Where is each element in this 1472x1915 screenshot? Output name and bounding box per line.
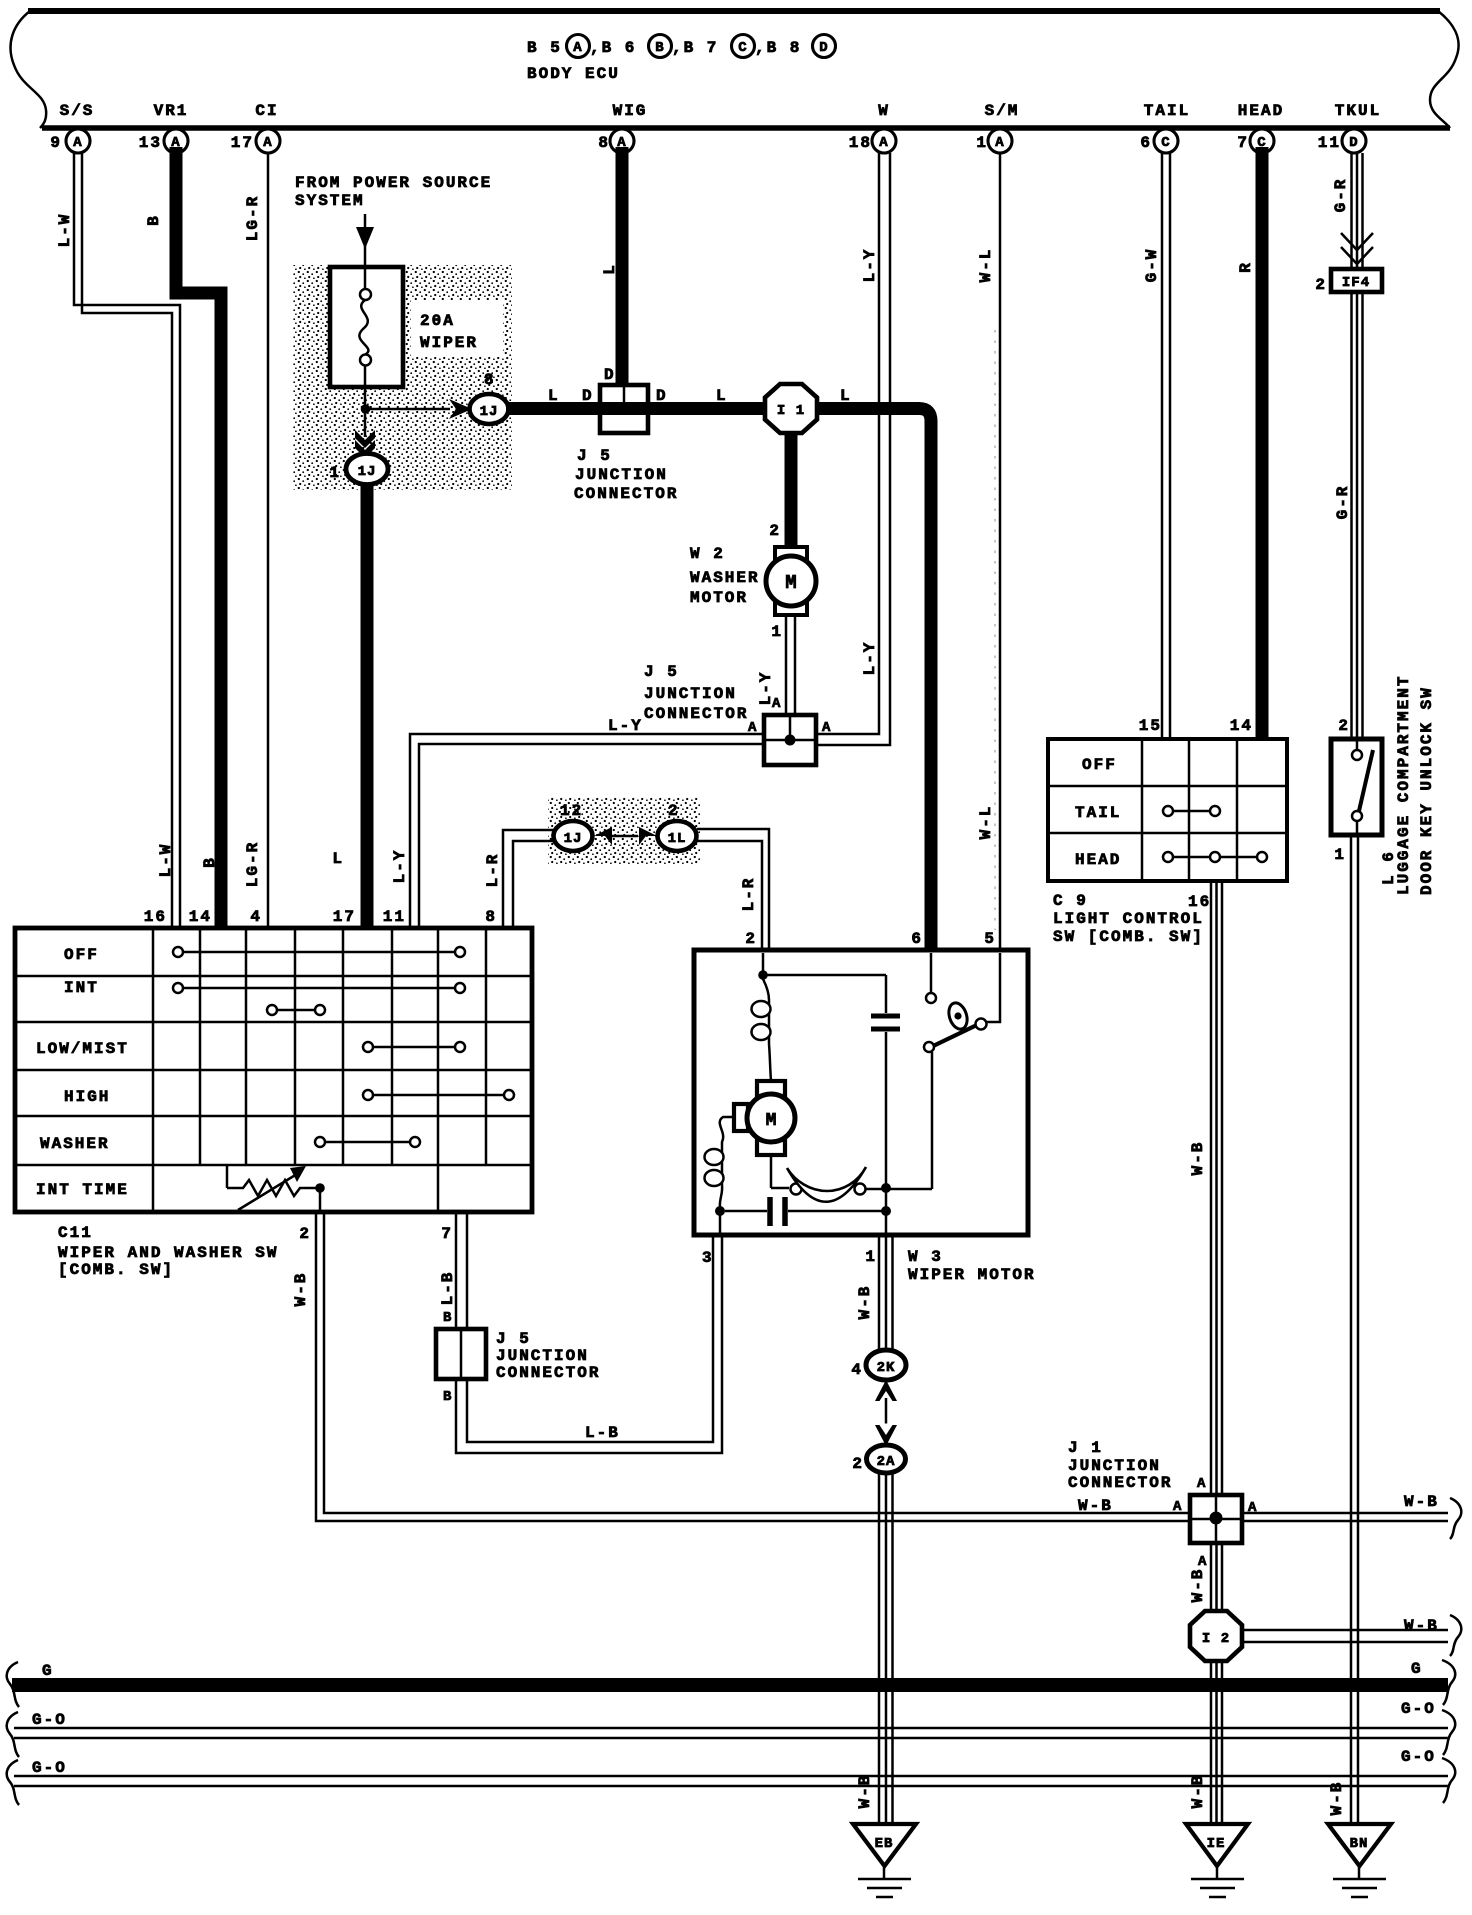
connector oval 2A (pin 2) — [852, 1445, 905, 1473]
connector oval 1J (pin 12) — [554, 802, 593, 851]
svg-text:CONNECTOR: CONNECTOR — [1068, 1474, 1172, 1492]
svg-text:7: 7 — [441, 1225, 453, 1243]
svg-text:LG-R: LG-R — [244, 841, 262, 887]
svg-text:W-B: W-B — [856, 1774, 874, 1809]
svg-text:WIG: WIG — [613, 102, 648, 120]
svg-text:R: R — [1237, 261, 1255, 273]
chevron arrows into IF4 — [1341, 233, 1373, 264]
pin W 18A — [849, 102, 896, 153]
svg-text:I 2: I 2 — [1202, 1631, 1230, 1647]
svg-text:G: G — [42, 1662, 54, 1680]
W3 internal: park switch — [924, 953, 1000, 1052]
svg-text:11: 11 — [383, 908, 406, 926]
svg-text:A: A — [1197, 1476, 1206, 1492]
svg-text:B: B — [145, 214, 163, 226]
wire G-W from TAIL down to C9 pin 15 — [1143, 153, 1170, 739]
svg-text:14: 14 — [189, 908, 212, 926]
svg-text:[COMB. SW]: [COMB. SW] — [58, 1261, 174, 1279]
branch wire to connector 1J pin 8 — [369, 399, 472, 419]
C11 OFF row contacts — [173, 947, 465, 957]
svg-text:17: 17 — [231, 134, 254, 152]
wire W-B from I2 down to IE ground — [1189, 1661, 1222, 1824]
body break braces for W-B lines at right — [1450, 1498, 1461, 1656]
svg-text:L-Y: L-Y — [391, 849, 409, 884]
svg-text:JUNCTION: JUNCTION — [1068, 1457, 1161, 1475]
svg-text:A: A — [1173, 1499, 1182, 1515]
svg-text:1J: 1J — [564, 831, 583, 847]
wire W-B from 2A down to EB ground — [856, 1473, 893, 1824]
svg-text:BN: BN — [1350, 1836, 1369, 1852]
svg-text:W 2: W 2 — [690, 545, 725, 563]
octagon connector I 2 — [1190, 1611, 1242, 1661]
svg-text:2: 2 — [1338, 717, 1350, 735]
wire L-Y from J5 left across to C11 pin 11 — [391, 717, 764, 928]
thick wire L from I1 right to wiper motor pin 6 — [817, 387, 931, 950]
wire B (thick) from VR1 to C11 pin 14 — [145, 147, 221, 928]
double chevron arrow down to connector 1J — [355, 413, 375, 458]
svg-text:D: D — [582, 387, 594, 405]
svg-text:11: 11 — [1318, 134, 1341, 152]
washer motor W2 — [690, 545, 816, 615]
svg-text:W-B: W-B — [1404, 1617, 1439, 1635]
svg-text:16: 16 — [1188, 893, 1211, 911]
svg-text:WIPER: WIPER — [420, 334, 478, 352]
svg-text:G-R: G-R — [1334, 485, 1352, 520]
svg-text:HIGH: HIGH — [64, 1088, 110, 1106]
svg-text:A: A — [879, 135, 888, 151]
svg-text:2: 2 — [668, 802, 680, 820]
svg-text:L-R: L-R — [484, 853, 502, 888]
svg-text:18: 18 — [849, 134, 872, 152]
ground rail G-O (lower) — [7, 1748, 1455, 1805]
C11 caption — [58, 1224, 278, 1279]
svg-text:SYSTEM: SYSTEM — [295, 192, 365, 210]
junction connector J1 box (A pins) — [1068, 1439, 1257, 1570]
C11 WASHER row contacts — [315, 1137, 420, 1147]
C11 pin numbers top — [144, 908, 497, 926]
svg-text:JUNCTION: JUNCTION — [496, 1347, 589, 1365]
feed arrow into fuse — [356, 214, 374, 266]
svg-text:A: A — [1198, 1554, 1207, 1570]
svg-text:W-L: W-L — [977, 805, 995, 840]
connector oval 1J (pin 8) — [470, 371, 509, 424]
svg-text:W 3: W 3 — [908, 1248, 943, 1266]
junction connector J5 box (bottom, A pins) — [644, 663, 831, 765]
svg-text:VR1: VR1 — [154, 102, 189, 120]
svg-text:B: B — [201, 856, 219, 868]
svg-text:12: 12 — [560, 802, 583, 820]
svg-text:L-Y: L-Y — [861, 641, 879, 676]
svg-text:14: 14 — [1230, 717, 1253, 735]
pin S/M 1A — [976, 102, 1019, 153]
svg-text:,B 8: ,B 8 — [755, 39, 801, 57]
svg-text:L: L — [548, 387, 560, 405]
luggage compartment door key unlock switch L6 — [1331, 739, 1382, 864]
light control switch C9 table — [1048, 739, 1287, 881]
svg-text:IF4: IF4 — [1342, 275, 1370, 291]
svg-text:D: D — [1349, 135, 1358, 151]
C11 INT row contacts — [173, 983, 465, 1015]
pin WIG 8A — [598, 102, 647, 153]
svg-text:L-B: L-B — [439, 1271, 457, 1306]
ground rail G-O (upper) — [7, 1700, 1455, 1757]
svg-text:C 9: C 9 — [1053, 892, 1088, 910]
svg-text:CI: CI — [255, 102, 278, 120]
wire W-B from W3 pin 1 down to 2K — [856, 1235, 893, 1352]
svg-text:WIPER MOTOR: WIPER MOTOR — [908, 1266, 1036, 1284]
C11 INT TIME variable resistor — [227, 1165, 325, 1212]
wire G-R from IF4 down to L6 pin 2 — [1334, 292, 1363, 739]
svg-text:M: M — [785, 572, 796, 594]
svg-text:3: 3 — [702, 1249, 714, 1267]
pin S/S 9A — [50, 102, 94, 153]
wire L-R from 1L to wiper motor pin 2 — [697, 829, 769, 950]
svg-text:JUNCTION: JUNCTION — [644, 685, 737, 703]
svg-text:4: 4 — [250, 908, 262, 926]
svg-text:I 1: I 1 — [777, 403, 805, 419]
svg-text:W-B: W-B — [1078, 1497, 1113, 1515]
svg-text:2: 2 — [745, 930, 757, 948]
svg-text:LIGHT CONTROL: LIGHT CONTROL — [1053, 910, 1204, 928]
BODY ECU title: B 5 A, B 6 B, B 7 C, B 8 D — [527, 35, 836, 84]
svg-text:INT: INT — [64, 979, 99, 997]
svg-text:EB: EB — [875, 1836, 894, 1852]
pin TKUL 11D — [1318, 102, 1381, 153]
wire LG-R from CI to C11 pin 4 — [244, 153, 268, 928]
svg-text:B: B — [443, 1389, 452, 1405]
W3 internal: left coil to pin 3 — [705, 1117, 735, 1233]
body ECU box outline — [11, 11, 1459, 128]
svg-text:13: 13 — [139, 134, 162, 152]
pin CI 17A — [231, 102, 280, 153]
wiper motor W3 box — [694, 930, 1036, 1284]
arrows between 1J and 1L — [594, 827, 657, 845]
wire W-B from C11 pin 2 across to J1 — [292, 1212, 1448, 1521]
svg-text:1: 1 — [976, 134, 988, 152]
wire G-R from TKUL down to IF4 — [1332, 153, 1363, 269]
svg-text:OFF: OFF — [64, 946, 99, 964]
fuse 20A WIPER — [330, 267, 478, 387]
svg-text:TAIL: TAIL — [1144, 102, 1190, 120]
C11 HIGH row contacts — [363, 1090, 514, 1100]
svg-text:IE: IE — [1207, 1836, 1226, 1852]
svg-text:1L: 1L — [668, 831, 687, 847]
svg-text:WASHER: WASHER — [40, 1135, 110, 1153]
svg-text:8: 8 — [484, 371, 496, 389]
arrows between 2K and 2A — [875, 1380, 897, 1446]
svg-text:D: D — [819, 40, 828, 56]
svg-text:L-Y: L-Y — [608, 717, 643, 735]
svg-text:W-B: W-B — [1189, 1141, 1207, 1176]
svg-text:1: 1 — [865, 1248, 877, 1266]
svg-text:W-B: W-B — [1189, 1774, 1207, 1809]
svg-text:C11: C11 — [58, 1224, 93, 1242]
svg-text:WIPER AND WASHER SW: WIPER AND WASHER SW — [58, 1244, 278, 1262]
svg-text:TAIL: TAIL — [1075, 804, 1121, 822]
svg-text:G-O: G-O — [32, 1711, 67, 1729]
svg-text:J 5: J 5 — [644, 663, 679, 681]
svg-text:2K: 2K — [877, 1360, 896, 1376]
svg-text:WASHER: WASHER — [690, 569, 760, 587]
svg-text:1: 1 — [771, 623, 783, 641]
svg-text:A: A — [995, 135, 1004, 151]
svg-text:LOW/MIST: LOW/MIST — [36, 1040, 129, 1058]
svg-text:1: 1 — [1334, 846, 1346, 864]
svg-text:9: 9 — [50, 134, 62, 152]
svg-text:,B 7: ,B 7 — [672, 39, 718, 57]
svg-text:L: L — [332, 850, 344, 868]
svg-text:15: 15 — [1139, 717, 1162, 735]
svg-text:2A: 2A — [877, 1454, 896, 1470]
svg-text:CONNECTOR: CONNECTOR — [496, 1364, 600, 1382]
wire R (thick) from HEAD down to C9 pin 14 — [1237, 147, 1262, 739]
wire L-Y from W pin 18 down to J5 junction — [816, 153, 890, 745]
wire W-B from L6 pin 1 down to BN ground — [1328, 835, 1358, 1824]
svg-text:W-L: W-L — [977, 248, 995, 283]
svg-text:HEAD: HEAD — [1238, 102, 1284, 120]
ground EB — [853, 1824, 916, 1897]
svg-text:W: W — [878, 102, 890, 120]
svg-text:1: 1 — [329, 464, 341, 482]
svg-text:6: 6 — [1140, 134, 1152, 152]
svg-text:MOTOR: MOTOR — [690, 589, 748, 607]
svg-text:CONNECTOR: CONNECTOR — [644, 705, 748, 723]
svg-text:DOOR KEY UNLOCK SW: DOOR KEY UNLOCK SW — [1418, 686, 1436, 895]
svg-text:J 5: J 5 — [577, 447, 612, 465]
svg-text:L-Y: L-Y — [861, 248, 879, 283]
svg-text:2: 2 — [852, 1455, 864, 1473]
octagon connector I 1 — [648, 384, 817, 433]
svg-text:TKUL: TKUL — [1335, 102, 1381, 120]
svg-text:G: G — [1411, 1660, 1423, 1678]
svg-text:L: L — [601, 263, 619, 275]
svg-text:FROM POWER SOURCE: FROM POWER SOURCE — [295, 174, 492, 192]
svg-text:L-W: L-W — [157, 843, 175, 878]
svg-text:C: C — [1161, 135, 1170, 151]
svg-text:2: 2 — [299, 1225, 311, 1243]
ground rail G — [7, 1660, 1455, 1707]
W3 internal: commutator crescent and brushes — [771, 1052, 932, 1202]
connector oval 2K (pin 4) — [851, 1350, 906, 1380]
svg-text:W-B: W-B — [292, 1272, 310, 1307]
wire L-Y from washer motor pin 1 to J5 junction — [757, 615, 795, 716]
svg-text:,B 6: ,B 6 — [590, 39, 636, 57]
svg-text:JUNCTION: JUNCTION — [575, 466, 668, 484]
svg-text:M: M — [766, 1111, 777, 1131]
svg-text:SW [COMB. SW]: SW [COMB. SW] — [1053, 928, 1204, 946]
svg-text:W-B: W-B — [1189, 1568, 1207, 1603]
C11 LOW/MIST row contacts — [363, 1042, 465, 1052]
W3 internal: pin2 node and field coil — [752, 953, 887, 1081]
svg-text:8: 8 — [598, 134, 610, 152]
ground IE — [1186, 1824, 1248, 1897]
svg-text:J 5: J 5 — [496, 1330, 531, 1348]
stipple patch around fuse 20A WIPER — [293, 265, 512, 490]
svg-text:W-B: W-B — [1404, 1493, 1439, 1511]
svg-text:B: B — [443, 1310, 452, 1326]
svg-text:A: A — [1248, 1500, 1257, 1516]
stipple patch around junction ovals 1J/1L — [548, 797, 700, 865]
C9 pin numbers — [1139, 717, 1253, 911]
wire W-L from S/M down to wiper motor pin 5 — [977, 153, 1000, 950]
svg-text:A: A — [573, 40, 582, 56]
svg-text:16: 16 — [144, 908, 167, 926]
svg-text:A: A — [822, 720, 831, 736]
svg-text:2: 2 — [1315, 276, 1327, 294]
junction connector J5 box (top, D pins) — [574, 385, 678, 503]
svg-text:OFF: OFF — [1082, 756, 1117, 774]
W3 internal: top capacitor branch — [871, 975, 900, 1211]
C9 TAIL row contacts — [1163, 806, 1220, 816]
thick wire L from 1J down to C11 pin 17 — [332, 483, 367, 928]
svg-text:C: C — [738, 40, 747, 56]
svg-text:20A: 20A — [420, 312, 455, 330]
FROM POWER SOURCE SYSTEM label — [295, 174, 492, 210]
svg-text:6: 6 — [911, 930, 923, 948]
svg-text:L-R: L-R — [740, 877, 758, 912]
pin TAIL 6C — [1140, 102, 1190, 153]
svg-text:A: A — [73, 135, 82, 151]
svg-text:HEAD: HEAD — [1075, 851, 1121, 869]
svg-text:G-O: G-O — [1401, 1700, 1436, 1718]
pin HEAD 7C — [1237, 102, 1284, 153]
wire from fuse to junction node — [364, 387, 367, 409]
svg-text:7: 7 — [1237, 134, 1249, 152]
svg-text:G-O: G-O — [1401, 1748, 1436, 1766]
wire L-W from S/S to C11 pin 16 — [56, 153, 180, 928]
svg-text:17: 17 — [333, 908, 356, 926]
C9 HEAD row contacts — [1163, 852, 1267, 862]
wire W-B from C9 pin 16 down through J1 to I2 — [1189, 881, 1222, 1612]
wire L-B from C11 pin 7 to J5 junction — [439, 1212, 467, 1330]
wire W-B from I2 right to body break — [1242, 1617, 1448, 1642]
svg-text:INT TIME: INT TIME — [36, 1181, 129, 1199]
svg-text:S/M: S/M — [985, 102, 1020, 120]
svg-text:W-B: W-B — [856, 1285, 874, 1320]
wire L (thick) from WIG down to J5 — [601, 147, 622, 388]
connector oval 1L (pin 2) — [658, 802, 697, 851]
junction connector J5 box (bottom left, B pins) — [436, 1329, 600, 1405]
svg-text:D: D — [604, 366, 616, 384]
wire L-B from J5 to wiper motor pin 3 — [456, 1237, 722, 1453]
W3 internal: motor M — [734, 1081, 795, 1155]
C9 caption — [1053, 892, 1204, 946]
L6 caption (vertical) — [1380, 675, 1436, 895]
svg-text:B 5: B 5 — [527, 39, 562, 57]
C11 pin numbers bottom — [299, 1225, 453, 1243]
svg-text:1J: 1J — [480, 404, 499, 420]
wire L-R from C11 pin 8 up to connector 1J — [484, 830, 556, 928]
svg-text:8: 8 — [485, 908, 497, 926]
svg-text:BODY ECU: BODY ECU — [527, 65, 620, 83]
svg-text:LG-R: LG-R — [244, 195, 262, 241]
ground BN — [1328, 1824, 1391, 1897]
svg-text:5: 5 — [984, 930, 996, 948]
connector oval 1J (pin 1) — [329, 454, 388, 485]
svg-text:2: 2 — [769, 522, 781, 540]
svg-text:S/S: S/S — [60, 102, 95, 120]
svg-text:B: B — [655, 40, 664, 56]
svg-text:CONNECTOR: CONNECTOR — [574, 485, 678, 503]
svg-text:L-W: L-W — [56, 213, 74, 248]
svg-text:A: A — [772, 696, 781, 712]
svg-text:LUGGAGE COMPARTMENT: LUGGAGE COMPARTMENT — [1395, 675, 1413, 895]
svg-text:G-W: G-W — [1143, 248, 1161, 283]
W3 internal: capacitor to pin 1 rail — [725, 1197, 891, 1233]
wiper and washer switch C11 table — [15, 928, 532, 1212]
svg-text:A: A — [263, 135, 272, 151]
junction node dot below fuse — [361, 404, 371, 414]
svg-text:4: 4 — [851, 1361, 863, 1379]
svg-text:J 1: J 1 — [1068, 1439, 1103, 1457]
svg-text:1J: 1J — [358, 464, 377, 480]
svg-text:G-O: G-O — [32, 1759, 67, 1777]
pin VR1 13A — [139, 102, 189, 153]
connector IF4 (pin 2) — [1315, 269, 1382, 294]
svg-text:G-R: G-R — [1332, 178, 1350, 213]
svg-text:L: L — [840, 387, 852, 405]
thick wire L from 1J to J5 to I1 — [506, 387, 767, 409]
svg-text:L-B: L-B — [585, 1424, 620, 1442]
thick wire L from I1 down to washer motor pin 2 — [769, 433, 791, 548]
